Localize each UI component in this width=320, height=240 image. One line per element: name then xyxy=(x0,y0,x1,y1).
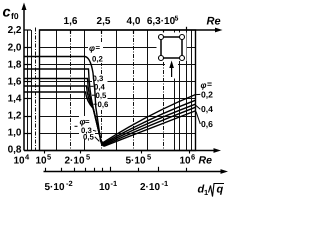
svg-text:10: 10 xyxy=(180,156,192,167)
svg-text:0,5: 0,5 xyxy=(83,132,95,141)
svg-text:0,8: 0,8 xyxy=(8,145,22,156)
white mask for lower phi label xyxy=(79,116,95,139)
svg-text:q: q xyxy=(217,184,224,196)
grid box border xyxy=(40,30,196,151)
d1 sqrt q label xyxy=(198,184,225,198)
svg-text:-1: -1 xyxy=(162,179,169,188)
svg-text:2,2: 2,2 xyxy=(8,25,22,36)
bottom Re axis line with arrow xyxy=(24,150,218,152)
svg-text:Re: Re xyxy=(199,155,213,167)
svg-text:Re: Re xyxy=(207,16,221,28)
y-axis with arrow xyxy=(23,7,25,151)
left mini-section dash-dot line xyxy=(35,28,37,151)
curve phi=0.2 xyxy=(24,57,195,143)
svg-text:1,2: 1,2 xyxy=(8,111,22,122)
svg-text:6,3·10: 6,3·10 xyxy=(147,16,176,27)
grid vertical solid lines xyxy=(57,30,192,151)
svg-text:0,2: 0,2 xyxy=(201,89,213,99)
secondary axis ticks xyxy=(46,167,187,172)
svg-text:=: = xyxy=(85,117,90,126)
top Re axis line with arrow xyxy=(40,29,220,31)
svg-text:2,0: 2,0 xyxy=(8,43,22,54)
svg-text:0,4: 0,4 xyxy=(94,82,106,91)
y-axis ticks xyxy=(24,30,31,151)
svg-text:=: = xyxy=(207,79,212,89)
white halo for inset xyxy=(157,33,187,62)
inset corner circles xyxy=(159,35,185,61)
svg-text:-2: -2 xyxy=(66,179,73,188)
svg-text:0,5: 0,5 xyxy=(96,91,108,100)
svg-text:5: 5 xyxy=(175,16,179,23)
white mask for upper phi label xyxy=(88,43,103,63)
y tick labels xyxy=(8,25,22,156)
right leader dashes xyxy=(196,94,200,124)
inset flow arrow xyxy=(171,64,173,77)
svg-text:5: 5 xyxy=(47,153,51,162)
svg-text:=: = xyxy=(96,43,101,52)
curve phi=0.6 xyxy=(24,92,195,146)
secondary axis labels xyxy=(45,179,169,193)
svg-text:5·10: 5·10 xyxy=(45,182,65,193)
top axis labels xyxy=(64,16,179,28)
svg-text:0,2: 0,2 xyxy=(92,55,104,64)
svg-text:-1: -1 xyxy=(111,179,118,188)
svg-text:2·10: 2·10 xyxy=(140,182,160,193)
white mask for mid phi value labels xyxy=(92,74,108,109)
svg-text:2·10: 2·10 xyxy=(65,156,85,167)
left mini-section verticals xyxy=(28,30,32,151)
svg-text:2,5: 2,5 xyxy=(97,16,111,27)
right phi group label xyxy=(201,79,214,129)
svg-text:6: 6 xyxy=(191,153,195,162)
curve phi=0.4 xyxy=(24,79,195,145)
svg-text:5: 5 xyxy=(147,153,151,162)
svg-text:φ: φ xyxy=(89,43,95,53)
svg-text:10: 10 xyxy=(36,156,48,167)
lower leader dashes xyxy=(75,126,100,141)
svg-text:f0: f0 xyxy=(11,11,19,21)
svg-text:10: 10 xyxy=(99,182,111,193)
bottom axis ticks xyxy=(45,151,190,154)
svg-text:0,6: 0,6 xyxy=(201,119,213,129)
mid leader dashes xyxy=(91,86,97,104)
svg-text:5·10: 5·10 xyxy=(126,156,146,167)
svg-text:1,6: 1,6 xyxy=(64,16,78,27)
svg-text:c: c xyxy=(3,5,11,21)
top axis ticks xyxy=(71,27,187,34)
inset square body xyxy=(161,37,182,58)
bottom axis labels xyxy=(14,153,196,167)
svg-text:1,6: 1,6 xyxy=(8,77,22,88)
grid vertical dash-dot lines at 1.6 2.5 4.0 6.3e5 xyxy=(71,30,164,151)
grid horizontal lines xyxy=(40,48,196,134)
lower phi group label xyxy=(80,117,95,142)
svg-text:10: 10 xyxy=(14,156,26,167)
svg-text:5: 5 xyxy=(86,153,90,162)
upper phi group label xyxy=(89,43,104,64)
svg-text:0,6: 0,6 xyxy=(98,100,110,109)
mid phi value labels xyxy=(93,74,110,109)
curve phi=0.5 xyxy=(24,86,195,145)
d1*sqrt(q) secondary axis xyxy=(44,171,225,173)
svg-text:4,0: 4,0 xyxy=(127,16,141,27)
svg-text:1,4: 1,4 xyxy=(8,94,22,105)
curve phi=0.3 xyxy=(24,69,195,143)
svg-text:1,8: 1,8 xyxy=(8,60,22,71)
svg-text:0,4: 0,4 xyxy=(201,104,213,114)
svg-text:1,0: 1,0 xyxy=(8,128,22,139)
svg-text:1: 1 xyxy=(204,188,208,197)
